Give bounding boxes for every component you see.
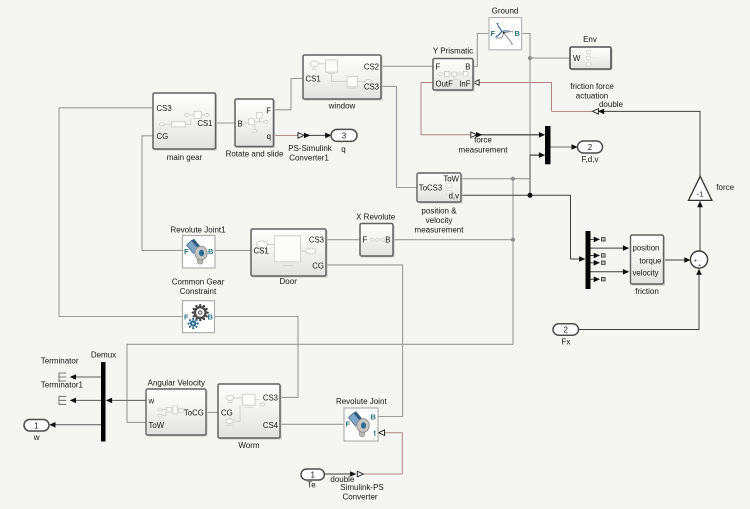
mux F,d,v	[545, 126, 551, 164]
arrow into friction demux input	[579, 256, 585, 262]
svg-text:F: F	[363, 236, 368, 245]
arrow into F,d,v oval	[572, 144, 578, 150]
wire mux output to F,d,v outport	[551, 146, 573, 148]
arrow filled PS-Simulink Converter1	[304, 133, 310, 139]
wire Angular Velocity w to Demux input	[112, 399, 147, 401]
subsystem Rotate and slide	[235, 99, 275, 148]
ARROWHEADS	[49, 80, 703, 477]
wire converter to Revolute Joint t (PS segment)	[358, 433, 403, 474]
svg-text:main gear: main gear	[167, 153, 203, 162]
svg-text:F: F	[436, 63, 441, 72]
svg-text:CS1: CS1	[197, 119, 212, 128]
demux left	[101, 362, 106, 442]
svg-text:w: w	[148, 397, 155, 406]
svg-text:B: B	[371, 413, 377, 422]
svg-text:B: B	[208, 247, 214, 256]
svg-text:CS3: CS3	[157, 104, 172, 113]
svg-text:Constraint: Constraint	[180, 287, 217, 296]
arrow friction demux out1	[594, 237, 600, 243]
svg-text:Demux: Demux	[91, 350, 116, 359]
wire friction demux out6 stub	[591, 278, 596, 280]
subsystem Door	[251, 229, 328, 278]
svg-text:position &: position &	[421, 207, 457, 216]
joint block Revolute Joint	[344, 408, 378, 441]
outport oval q	[331, 129, 357, 141]
arrow into mux input2	[539, 152, 545, 158]
svg-text:Ground: Ground	[492, 7, 519, 16]
wire window CS3 to ToCS3 sensor	[381, 86, 417, 187]
wire Door CG to Revolute Joint B	[326, 265, 403, 417]
svg-text:Revolute Joint1: Revolute Joint1	[170, 225, 226, 234]
svg-text:1: 1	[34, 421, 39, 430]
svg-text:B: B	[385, 236, 390, 245]
svg-text:F,d,v: F,d,v	[582, 155, 599, 164]
junction dot X Revolute branch	[511, 238, 515, 242]
svg-text:force: force	[474, 136, 492, 145]
subsystem Worm	[218, 384, 282, 440]
sum junction	[690, 251, 707, 269]
wire Door CS3 to X Revolute F	[326, 239, 360, 241]
square terminator out3	[602, 254, 606, 257]
svg-text:B: B	[465, 63, 470, 72]
wire branch to Env W	[530, 57, 570, 59]
svg-text:measurement: measurement	[459, 145, 509, 154]
outport oval F,d,v	[578, 141, 603, 153]
svg-text:F: F	[346, 419, 351, 428]
wire converter to outport q oval (signal segment)	[304, 134, 326, 136]
wire friction torque to sum	[664, 259, 686, 261]
arrow into mux input1	[539, 132, 545, 138]
svg-text:PS-Simulink: PS-Simulink	[288, 144, 333, 153]
wire window CS2 to Y Prismatic F	[381, 65, 433, 67]
svg-text:Converter: Converter	[342, 493, 377, 502]
arrow hollow at Revolute Joint t port	[379, 430, 385, 436]
svg-text:CG: CG	[221, 408, 233, 417]
svg-text:Converter1: Converter1	[289, 153, 329, 162]
svg-text:Revolute Joint: Revolute Joint	[336, 397, 387, 406]
arrow hollow at InF port	[473, 80, 479, 86]
junction dot d,v branch	[528, 193, 533, 198]
inport oval Fx	[553, 324, 579, 335]
svg-text:q: q	[267, 132, 271, 141]
wire Common Gear Constraint B to Worm CS3	[215, 317, 298, 398]
svg-text:Terminator1: Terminator1	[41, 380, 84, 389]
svg-text:X Revolute: X Revolute	[356, 213, 396, 222]
svg-text:w: w	[33, 433, 40, 442]
sensor block Angular Velocity	[146, 389, 208, 437]
svg-text:F: F	[266, 107, 271, 116]
svg-text:F: F	[184, 312, 189, 321]
svg-text:window: window	[328, 102, 356, 111]
svg-text:Y Prismatic: Y Prismatic	[433, 46, 473, 55]
wire Rotate and slide F to window CS1	[274, 79, 304, 110]
arrow into left Demux input	[106, 398, 112, 404]
wire ToCS3 ToW to vertical	[461, 178, 530, 180]
svg-text:torque: torque	[639, 256, 661, 265]
wire converter to mux input1 (signal segment)	[477, 134, 540, 136]
arrow hollow PS-Simulink Converter1	[298, 133, 304, 139]
demux friction inputs	[586, 231, 591, 289]
svg-text:CS3: CS3	[364, 83, 379, 92]
wire Demux out1 to Terminator	[75, 376, 101, 378]
arrow into Terminator1	[70, 398, 76, 404]
block Ground	[489, 18, 522, 50]
wire Ground F to Y Prismatic B	[473, 34, 489, 67]
arrow friction demux out5 into velocity	[623, 269, 629, 275]
wire Revolute Joint1 B to Door CS1	[215, 249, 251, 251]
wire mux input2 from junction	[530, 154, 540, 156]
arrow friction demux out2 into position	[623, 245, 629, 251]
terminator Terminator1	[59, 396, 66, 404]
svg-text:2: 2	[563, 326, 568, 335]
wire friction demux out2 to friction position	[591, 247, 624, 249]
wire sum output to gain input	[699, 202, 701, 252]
svg-text:Door: Door	[280, 277, 298, 286]
svg-text:Fx: Fx	[561, 337, 570, 346]
wire gain output to InF (signal segment)	[599, 111, 701, 176]
svg-text:F: F	[491, 29, 496, 38]
arrow filled force measurement converter	[476, 132, 482, 138]
junction dot ToW branch	[511, 177, 515, 181]
square terminator out1	[602, 238, 606, 241]
svg-text:F: F	[184, 247, 189, 256]
svg-text:Worm: Worm	[238, 441, 260, 450]
gain -1	[689, 176, 712, 200]
svg-text:ToW: ToW	[443, 175, 459, 184]
arrow hollow InF boundary	[593, 109, 599, 115]
svg-text:ToW: ToW	[149, 421, 165, 430]
svg-text:friction force: friction force	[570, 82, 614, 91]
svg-text:Angular Velocity: Angular Velocity	[148, 378, 205, 387]
arrow friction demux out3	[594, 253, 600, 259]
wire Demux out3 to w outport	[55, 424, 102, 426]
wire Te inport to converter (signal segment)	[324, 473, 350, 475]
svg-text:d,v: d,v	[449, 191, 460, 200]
block Env	[570, 47, 613, 71]
constraint block Common Gear Constraint	[183, 301, 215, 333]
wire friction demux out3 stub	[591, 255, 596, 257]
inport oval Te	[301, 469, 324, 480]
wire main gear CG to Revolute Joint1 F	[142, 136, 182, 251]
terminator Terminator	[59, 373, 66, 381]
square terminator out6	[602, 278, 606, 281]
svg-text:3: 3	[342, 131, 347, 140]
wire Worm CS4 to Revolute Joint F	[281, 423, 345, 425]
svg-text:CS3: CS3	[263, 394, 278, 403]
svg-text:Te: Te	[307, 480, 316, 489]
svg-text:B: B	[515, 29, 521, 38]
svg-text:W: W	[573, 54, 581, 63]
svg-text:InF: InF	[459, 80, 471, 89]
svg-text:force: force	[716, 183, 734, 192]
outport oval w	[24, 420, 49, 432]
arrow hollow force measurement converter	[471, 132, 477, 138]
wire Ground B down to d v junction	[523, 34, 530, 156]
svg-text:B: B	[238, 120, 243, 129]
svg-text:Env: Env	[583, 35, 597, 44]
wire main gear CS3 to Common Gear Constraint F	[59, 108, 182, 317]
arrow filled into q oval	[325, 133, 331, 139]
svg-text:CS4: CS4	[263, 421, 279, 430]
svg-text:q: q	[341, 145, 345, 154]
arrow filled InF boundary	[598, 109, 604, 115]
subsystem main gear	[153, 93, 217, 151]
wire branch to X Revolute B	[394, 239, 514, 241]
wire friction demux out4 stub	[591, 262, 596, 264]
wire friction demux out5 to friction velocity	[591, 271, 624, 273]
square terminator out4	[602, 261, 606, 264]
wire InF actuation (PS segment)	[479, 83, 594, 112]
svg-text:CG: CG	[157, 132, 169, 141]
svg-text:1: 1	[310, 471, 315, 480]
svg-text:CG: CG	[312, 261, 324, 270]
svg-text:-1: -1	[697, 189, 704, 198]
subsystem window	[303, 55, 383, 101]
joint block Revolute Joint1	[183, 236, 216, 269]
wire main gear CS1 to Rotate and slide B	[216, 122, 236, 124]
junction dot Ground-Env branch	[528, 56, 532, 60]
wire Angular Velocity ToCG to Worm CG	[206, 411, 218, 413]
svg-text:CS1: CS1	[306, 75, 321, 84]
arrow into gain from sum	[697, 201, 703, 207]
wire ToW net down left to Angular Velocity ToW	[127, 179, 513, 423]
wire ToCS3 d,v to friction demux	[461, 195, 580, 259]
subsystem friction	[631, 235, 666, 286]
svg-text:Simulink-PS: Simulink-PS	[340, 483, 384, 492]
arrow filled Simulink-PS converter	[350, 471, 356, 477]
svg-text:CS3: CS3	[309, 236, 324, 245]
svg-text:ToCS3: ToCS3	[419, 183, 442, 192]
arrow into w outport	[49, 422, 55, 428]
svg-text:CS1: CS1	[254, 246, 269, 255]
wire Fx inport to sum bottom	[579, 270, 700, 330]
subsystem X Revolute	[360, 224, 395, 258]
svg-text:velocity: velocity	[633, 269, 659, 278]
wire Demux out2 to Terminator1	[75, 399, 101, 401]
subsystem Y Prismatic	[433, 59, 475, 92]
svg-text:+: +	[694, 259, 697, 265]
arrow into sum from Fx	[696, 269, 702, 275]
arrow into sum from friction torque	[684, 257, 690, 263]
svg-text:+: +	[698, 263, 701, 269]
svg-text:OutF: OutF	[436, 80, 454, 89]
svg-text:measurement: measurement	[415, 226, 465, 235]
svg-text:CS2: CS2	[364, 62, 379, 71]
svg-text:double: double	[599, 100, 624, 109]
svg-text:2: 2	[588, 143, 593, 152]
svg-text:friction: friction	[635, 287, 659, 296]
svg-text:position: position	[633, 244, 660, 253]
wire Y Prismatic OutF to converter (PS segment)	[421, 83, 472, 135]
svg-text:ToCG: ToCG	[184, 409, 204, 418]
arrow friction demux out4	[594, 260, 600, 266]
svg-text:B: B	[208, 312, 214, 321]
arrow into Terminator	[70, 374, 76, 380]
svg-text:Rotate and slide: Rotate and slide	[226, 149, 284, 158]
svg-text:velocity: velocity	[426, 216, 453, 225]
svg-text:Terminator: Terminator	[41, 357, 79, 366]
arrow hollow Simulink-PS converter	[357, 471, 363, 477]
svg-text:Common Gear: Common Gear	[172, 277, 225, 286]
wire Rotate and slide q to converter (PS segment)	[274, 134, 299, 136]
sensor block ToCS3 (position and velocity measurement)	[417, 173, 463, 204]
arrow friction demux out6	[594, 277, 600, 283]
wire friction demux out1 stub	[591, 238, 596, 240]
